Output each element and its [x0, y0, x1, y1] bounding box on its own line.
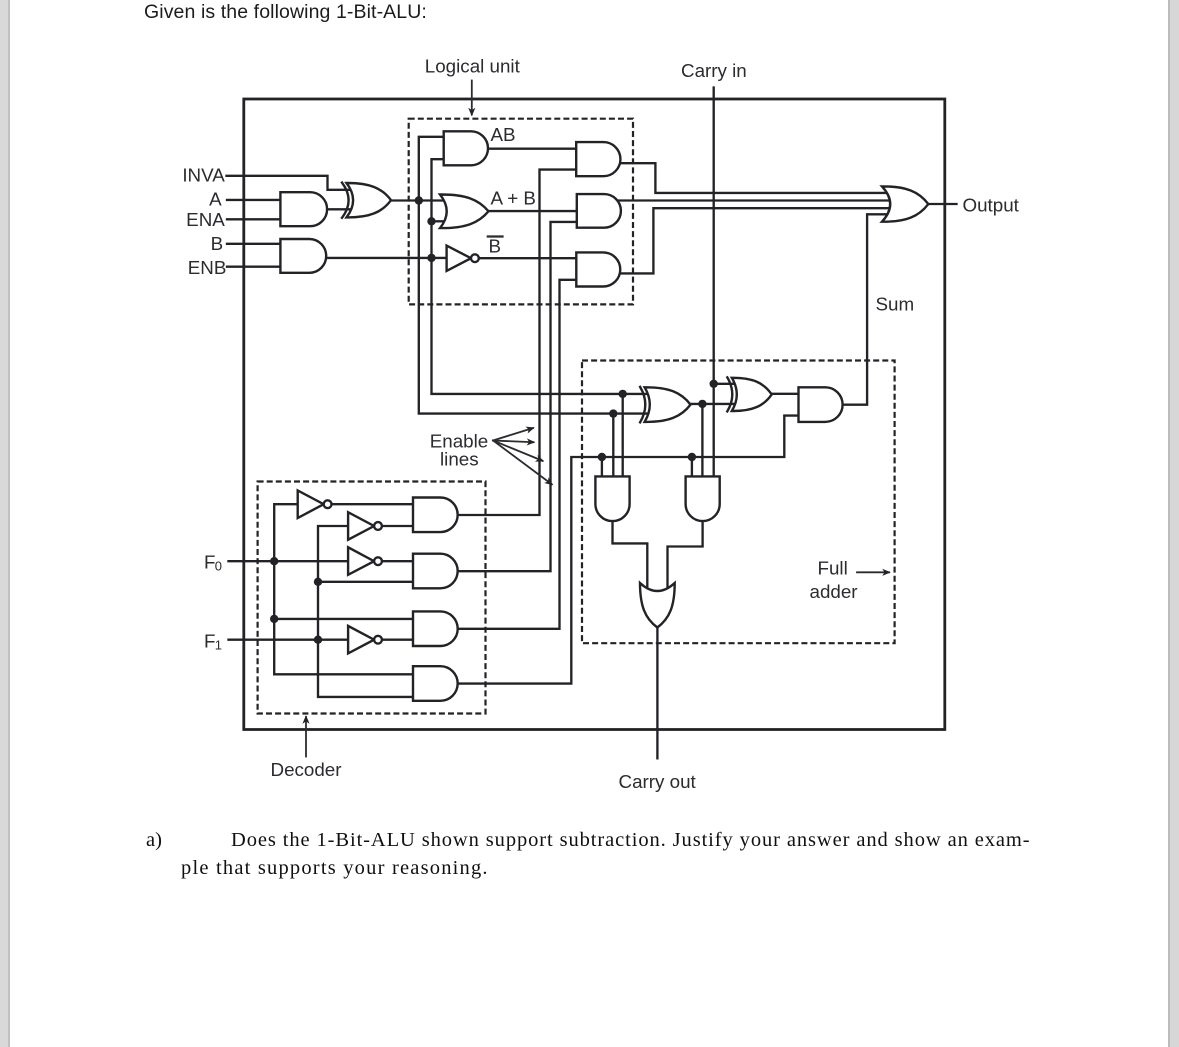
wire: gate1 output to output bus top line — [618, 163, 887, 193]
junction dot: enable4 to carry AND B — [688, 453, 696, 461]
decoder AND gate 2 — [413, 554, 458, 589]
svg-text:Full: Full — [818, 558, 848, 579]
decoder NOT2 triangle — [348, 512, 374, 540]
wire: B net - AND(B,ENB) output to NOT input — [326, 257, 447, 259]
junction dot: F1 line — [314, 636, 322, 644]
wire: full-adder XOR1 output to XOR2 bottom input — [688, 403, 736, 405]
AND gate (A,ENA) — [280, 192, 327, 226]
arrow: enable lines pointer 4 — [493, 441, 552, 485]
decoder NOT1 triangle — [298, 491, 324, 519]
decoder NOT2 bubble — [374, 522, 382, 530]
wire: F0 input to decoder — [229, 560, 350, 562]
junction dot: XOR1 output node — [698, 400, 706, 408]
wire: INVA input with step down to XOR top input — [227, 176, 352, 190]
NOT gate B-bar bubble — [471, 254, 479, 262]
svg-text:A + B: A + B — [491, 188, 536, 209]
junction dot: F0 line — [270, 557, 278, 565]
AND gate AB — [444, 131, 488, 165]
enable AND gate 3 (B-bar row) — [576, 252, 620, 286]
svg-text:ENA: ENA — [186, 209, 225, 230]
AND gate (B,ENB) — [280, 239, 326, 273]
wire: decoder NOT2 output — [382, 525, 414, 527]
arrow: enable lines pointer 1 — [493, 428, 533, 441]
NOT gate B-bar triangle — [447, 246, 471, 271]
arrow: enable lines pointer 3 — [493, 441, 543, 461]
svg-text:Sum: Sum — [876, 294, 915, 315]
svg-text:A: A — [209, 189, 222, 210]
decoder AND gate 3 — [413, 611, 458, 646]
wire: A net vertical - AB gate top input down to full-adder XOR lower input — [419, 137, 649, 414]
junction dot: F1 to AND2 — [314, 578, 322, 586]
wire: B net branch to OR(A+B) bottom input — [432, 220, 445, 222]
wire: A input — [227, 199, 281, 201]
svg-text:Output: Output — [963, 195, 1020, 216]
arrow: Decoder pointer — [305, 717, 307, 757]
decoder NOT4 bubble — [374, 636, 382, 644]
decoder AND gate 1 — [413, 498, 458, 533]
OR gate A+B — [440, 194, 489, 228]
wire: decoder NOT3 output — [382, 560, 414, 562]
wire: full-adder XOR2 output to sum AND gate — [769, 393, 800, 395]
wire: F0 distribution vertical — [274, 504, 414, 674]
wire: decoder NOT4 output — [382, 639, 414, 641]
carry AND gate A (down-pointing) — [595, 476, 629, 521]
right gray gutter strip — [1168, 0, 1179, 1047]
XOR gate (A xor INVA) body — [347, 183, 392, 217]
junction dot: enable4 to carry AND A — [598, 453, 606, 461]
arrow: Logical unit pointer — [471, 81, 473, 115]
enable AND gate 2 (A+B row) — [577, 194, 621, 228]
full-adder XOR2 body — [732, 378, 772, 411]
junction dot: A at full-adder XOR1 bottom input — [609, 409, 617, 417]
wire: AND(A,ENA) output to XOR bottom input — [327, 208, 352, 210]
wire: enable line 3 from decoder gate3 up to logical-unit gate3 — [457, 280, 577, 629]
carry-out OR gate (down-pointing) — [640, 583, 675, 628]
wire: decoder NOT2 input from F1 vertical — [318, 526, 414, 697]
svg-text:adder: adder — [810, 581, 858, 602]
full-adder XOR1 body — [645, 387, 691, 422]
wire: sum AND output up to final OR (Sum line) — [840, 214, 888, 404]
dashed box: full adder — [582, 361, 895, 644]
wire: F1 input to decoder — [229, 639, 350, 641]
dashed box: decoder — [258, 482, 486, 714]
final OR gate (Output) — [882, 186, 928, 221]
wire: A net - XOR output to OR(A+B) top input — [391, 199, 444, 201]
dashed box: logical unit — [409, 119, 633, 305]
question text line a) — [146, 829, 162, 852]
wire: B input — [227, 243, 281, 245]
wire: ENB input — [227, 266, 281, 268]
svg-text:INVA: INVA — [182, 165, 225, 186]
svg-text:0: 0 — [215, 559, 222, 574]
svg-text:Decoder: Decoder — [271, 759, 342, 780]
enable AND gate 1 (AB row) — [576, 142, 620, 176]
arrow: Full adder pointer — [857, 571, 889, 573]
overbar of B-bar label — [488, 235, 503, 237]
full-adder XOR1 extra back arc — [640, 387, 645, 422]
question text line 2 — [181, 857, 489, 880]
wire: carry-in branch to full-adder XOR2 top input — [714, 383, 736, 385]
svg-text:F: F — [204, 631, 215, 652]
junction dot: A node — [415, 196, 423, 204]
XOR gate (A xor INVA) extra back arc — [342, 183, 349, 218]
wire: carry out vertical — [656, 626, 658, 758]
wire: final OR output (Output) — [926, 203, 957, 205]
wire: B net vertical - AB gate bottom input down to full-adder XOR upper input — [432, 159, 650, 394]
wire: ENA input — [227, 218, 281, 220]
wire: decoder NOT1 output — [332, 503, 415, 505]
svg-text:lines: lines — [440, 449, 479, 470]
wire: A+B output to enable AND gate 2 — [489, 210, 578, 212]
wire: NOT-B output to enable AND gate 3 — [479, 257, 578, 259]
outer ALU box — [244, 99, 945, 730]
junction dot: B line — [427, 254, 435, 262]
wire: F0 branch to decoder AND3 top input — [274, 618, 414, 620]
decoder NOT3 triangle — [348, 547, 374, 575]
svg-text:ENB: ENB — [188, 257, 227, 278]
junction dot: B at full-adder XOR1 top input — [619, 390, 627, 398]
wire: enable line 2 from decoder gate2 up to logical-unit gate2 — [457, 222, 578, 571]
wire: full-adder carry AND B inputs — [692, 404, 703, 478]
wire: full-adder carry AND A inputs — [602, 394, 623, 478]
decoder NOT3 bubble — [374, 557, 382, 565]
wire: gate3 output to output bus bottom line — [618, 208, 890, 273]
svg-text:B: B — [211, 233, 224, 254]
arrow: enable lines pointer 2 — [493, 441, 534, 443]
wire: carry AND B output into carry OR — [668, 519, 703, 590]
svg-text:1: 1 — [215, 638, 222, 653]
svg-text:F: F — [204, 552, 215, 573]
full-adder XOR2 extra back arc — [727, 377, 732, 411]
sum AND gate — [799, 387, 843, 422]
title text — [144, 1, 427, 24]
left gray gutter strip — [0, 0, 10, 1047]
wire: AB output to enable AND gate 1 — [488, 148, 577, 150]
junction dot: F0 to AND3 — [270, 615, 278, 623]
svg-text:B: B — [489, 236, 502, 257]
junction dot: B to OR input — [427, 217, 435, 225]
wire: enable line 4 from decoder gate4 through full adder to sum AND gate — [457, 416, 800, 684]
svg-text:AB: AB — [491, 124, 516, 145]
svg-text:Carry out: Carry out — [619, 771, 697, 792]
decoder NOT4 triangle — [348, 626, 374, 654]
decoder AND gate 4 — [413, 666, 458, 701]
junction dot: carry-in node — [710, 380, 718, 388]
carry AND gate B (down-pointing) — [686, 476, 720, 521]
svg-text:Carry in: Carry in — [681, 60, 747, 81]
svg-text:Logical unit: Logical unit — [425, 56, 521, 77]
wire: carry in vertical — [713, 88, 715, 478]
wire: enable line 1 from decoder gate1 up to logical-unit gate1 — [457, 170, 577, 515]
wire: carry AND A output into carry OR — [613, 519, 648, 590]
wire: F1 branch to decoder AND2 bottom input — [318, 581, 414, 583]
decoder NOT1 bubble — [324, 500, 332, 508]
wire: gate2 output to output bus middle line — [618, 199, 890, 201]
